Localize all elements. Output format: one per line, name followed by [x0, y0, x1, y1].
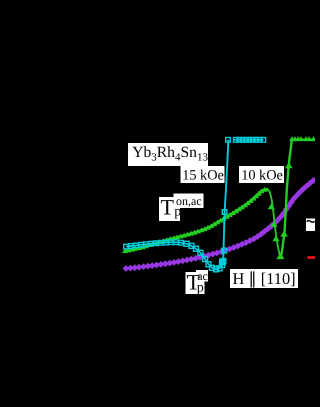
purple curve: series line	[126, 179, 315, 269]
green curve: 10 kOe series rise and descent line	[125, 189, 268, 251]
label box 10 kOe	[239, 166, 284, 184]
red tick at right edge	[308, 256, 316, 259]
svg-text:15 kOe: 15 kOe	[182, 168, 224, 184]
svg-text:10 kOe: 10 kOe	[241, 168, 283, 184]
cyan curve: top plateau line	[234, 139, 264, 141]
cropped white label fragment at right edge	[306, 219, 315, 232]
green curve: steep ascent line	[281, 140, 292, 258]
svg-text:H ∥ [110]: H ∥ [110]	[233, 269, 296, 288]
purple curve: diamond markers	[123, 177, 317, 272]
label box H || [110]	[230, 269, 298, 288]
green curve: triangle markers	[122, 136, 316, 259]
svg-text:T: T	[161, 195, 175, 220]
green curve: top plateau line	[292, 138, 315, 140]
label Tp on,ac	[159, 194, 204, 222]
label Tp ac	[186, 269, 209, 295]
svg-text:ac: ac	[197, 269, 208, 283]
cyan curve: open square markers	[124, 138, 266, 272]
cyan curve: 15 kOe series line	[126, 242, 223, 269]
label box Yb3Rh4Sn13	[128, 143, 208, 166]
label box 15 kOe	[181, 166, 225, 184]
cyan curve: vertical jump line	[223, 140, 228, 261]
svg-text:on,ac: on,ac	[176, 194, 202, 208]
